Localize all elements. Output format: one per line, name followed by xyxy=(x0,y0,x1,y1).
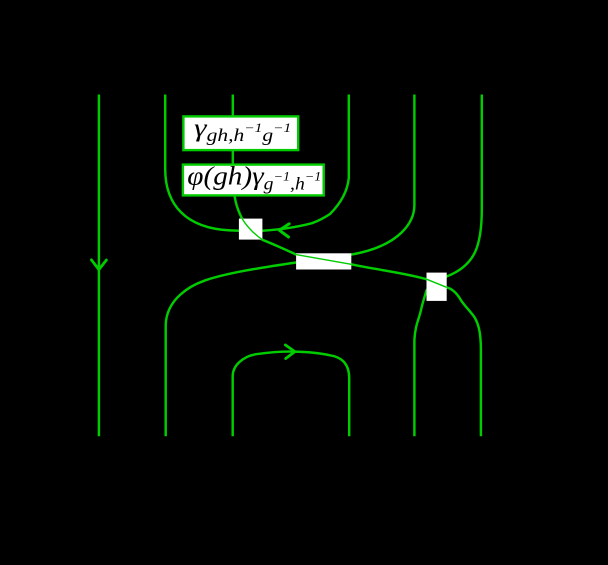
arrow: left arrow on cup strand xyxy=(279,224,289,237)
wire: bottom cap strand xyxy=(233,352,350,437)
node: crossing box 3 xyxy=(427,273,447,301)
label box 1 xyxy=(183,116,298,150)
wire: main diagonal strand (233 top to 480.8 bottom) xyxy=(233,95,481,437)
wire: thin over-segment of diagonal inside square 1 xyxy=(242,218,263,240)
arrow: right arrow on bottom cap xyxy=(285,345,295,359)
wire: thin over-segment of diagonal inside box 3 xyxy=(427,279,447,287)
wire: thin over-segment of diagonal inside rectangle 2 xyxy=(296,255,351,265)
label box 2 xyxy=(183,165,324,196)
wire: right strand (481.8 top to 414.4 bottom) xyxy=(414,95,481,437)
wire: cup strand (165 top to 348.8 top) xyxy=(165,95,349,232)
node: crossing square 1 xyxy=(239,219,263,240)
node: crossing rectangle 2 xyxy=(296,253,351,269)
wire: arc strand (414.4 top to 165.8 bottom) xyxy=(166,95,415,437)
wire: left vertical strand xyxy=(98,95,100,437)
arrow: down arrow on left strand xyxy=(91,260,106,270)
